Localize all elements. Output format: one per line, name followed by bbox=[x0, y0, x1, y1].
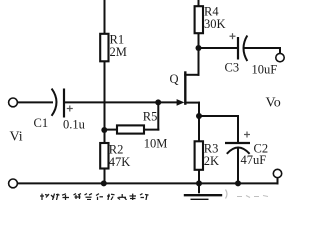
svg-text:C1: C1 bbox=[34, 116, 49, 130]
svg-text:0.1u: 0.1u bbox=[63, 118, 86, 132]
svg-text:47K: 47K bbox=[109, 155, 131, 169]
svg-text:47uF: 47uF bbox=[241, 153, 267, 167]
svg-text:Vi: Vi bbox=[10, 130, 23, 145]
svg-text:Q: Q bbox=[170, 72, 179, 86]
svg-text:10uF: 10uF bbox=[252, 63, 278, 77]
svg-text:30K: 30K bbox=[204, 17, 226, 31]
svg-text:10M: 10M bbox=[144, 137, 168, 151]
svg-text:R5: R5 bbox=[143, 110, 158, 124]
svg-text:2M: 2M bbox=[110, 45, 127, 59]
svg-text:2K: 2K bbox=[204, 154, 219, 168]
svg-text:C3: C3 bbox=[225, 61, 240, 75]
svg-text:Vo: Vo bbox=[266, 96, 281, 111]
